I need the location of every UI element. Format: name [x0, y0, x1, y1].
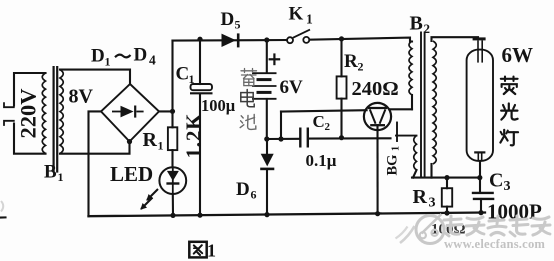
svg-text:LED: LED	[110, 162, 153, 186]
svg-text:5: 5	[235, 18, 241, 32]
svg-text:1: 1	[306, 12, 313, 27]
svg-text:D: D	[236, 179, 250, 200]
svg-text:220V: 220V	[16, 89, 41, 139]
svg-text:K: K	[289, 4, 304, 25]
svg-text:D: D	[221, 9, 235, 30]
svg-text:C: C	[176, 64, 190, 85]
svg-text:1.2K: 1.2K	[182, 113, 206, 159]
svg-text:100μ: 100μ	[201, 96, 236, 115]
svg-text:D: D	[134, 45, 148, 66]
svg-text:1: 1	[189, 72, 195, 86]
svg-text:2: 2	[424, 21, 431, 36]
svg-text:1: 1	[105, 55, 111, 69]
svg-text:2: 2	[325, 121, 331, 133]
svg-text:C: C	[313, 112, 325, 131]
svg-text:D: D	[91, 46, 105, 67]
svg-text:0.1μ: 0.1μ	[306, 151, 337, 170]
svg-text:R: R	[344, 51, 358, 72]
svg-text:8V: 8V	[69, 86, 94, 108]
svg-text:4: 4	[149, 53, 156, 68]
svg-text:BG: BG	[385, 155, 401, 176]
svg-text:B: B	[410, 13, 423, 35]
svg-text:6W: 6W	[502, 43, 534, 67]
svg-text:R: R	[413, 186, 428, 208]
svg-text:3: 3	[429, 196, 436, 211]
svg-text:1: 1	[158, 139, 164, 153]
svg-text:3: 3	[504, 179, 511, 194]
svg-text:6: 6	[251, 188, 257, 202]
svg-text:6V: 6V	[280, 77, 304, 98]
svg-text:B: B	[44, 162, 57, 183]
svg-text:240Ω: 240Ω	[352, 78, 399, 100]
svg-text:1: 1	[391, 146, 402, 151]
svg-text:1: 1	[58, 170, 64, 184]
svg-text:C: C	[489, 170, 503, 192]
svg-text:1: 1	[207, 241, 216, 261]
svg-text:2: 2	[358, 60, 364, 74]
svg-text:R: R	[143, 129, 158, 151]
svg-text:www.elecfans.com: www.elecfans.com	[444, 237, 545, 251]
